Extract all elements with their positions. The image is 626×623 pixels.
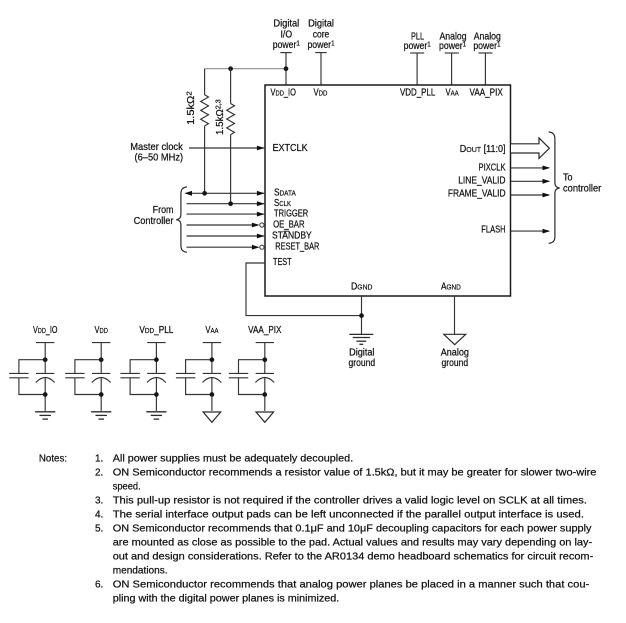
value label 1.5kOhm notes 2,3 (rotated) <box>215 99 226 135</box>
svg-text:ON Semiconductor recommends th: ON Semiconductor recommends that analog … <box>113 579 590 590</box>
capacitor 10uF polarized (VDD_PLL) <box>147 373 166 382</box>
svg-text:From: From <box>153 205 174 215</box>
junction DGND / TEST <box>359 313 364 318</box>
svg-text:core: core <box>313 29 330 40</box>
svg-text:speed.: speed. <box>113 481 141 492</box>
wire: VAA decoupling net <box>186 343 212 411</box>
power supply symbol VDD_IO (bar) <box>36 342 54 344</box>
power supply symbol VDD_IO (bar + stub to pin) <box>280 53 291 86</box>
svg-text:ON Semiconductor recommends th: ON Semiconductor recommends that 0.1μF a… <box>113 524 593 535</box>
junction VDD bottom <box>99 392 104 397</box>
note line <box>95 579 590 590</box>
capacitor 10uF polarized (VDD) <box>92 373 111 382</box>
note line <box>95 495 587 506</box>
power supply symbol VDD (bar + stub) <box>315 53 326 86</box>
svg-text:power1: power1 <box>473 40 500 51</box>
svg-text:TRIGGER: TRIGGER <box>274 207 308 218</box>
svg-text:VAA_PIX: VAA_PIX <box>470 87 503 98</box>
wire: DGND stub <box>361 296 363 334</box>
svg-text:out and design considerations.: out and design considerations. Refer to … <box>113 551 594 562</box>
power supply symbol VAA_PIX (bar) <box>256 342 274 344</box>
bus arrow DOUT to controller <box>511 138 549 158</box>
analog ground symbol (VAA_PIX) <box>256 412 274 422</box>
svg-text:1.: 1. <box>95 453 103 464</box>
svg-text:This pull-up resistor is not r: This pull-up resistor is not required if… <box>113 495 587 506</box>
power supply symbol VAA (bar + stub) <box>445 53 459 86</box>
capacitor 10uF polarized (VDD_IO) <box>36 373 55 382</box>
label: Master clock (6-50 MHz) <box>130 142 183 164</box>
sensor chip U1 (AR0134) body <box>265 85 511 296</box>
svg-text:I/O: I/O <box>281 29 293 40</box>
power rail: Analog power label (VAA_PIX) <box>473 31 501 51</box>
junction rail / R2 top <box>228 66 233 71</box>
junction VDD_PLL top <box>154 357 159 362</box>
svg-text:power1: power1 <box>273 40 300 51</box>
svg-text:power1: power1 <box>439 40 466 51</box>
wire: PIXCLK output <box>511 166 550 171</box>
note line <box>95 467 597 479</box>
note line <box>113 551 594 562</box>
svg-text:6.: 6. <box>95 579 103 590</box>
junction SCLK / R2 <box>228 201 233 206</box>
wire: pull-up rail to VDD_IO <box>205 68 286 70</box>
junction VDD top <box>99 357 104 362</box>
power supply symbol VDD_PLL (bar + stub) <box>410 53 424 86</box>
wire: TRIGGER <box>187 212 265 217</box>
svg-text:VAA_PIX: VAA_PIX <box>248 324 281 335</box>
svg-text:pling with the digital power p: pling with the digital power planes is m… <box>113 594 340 605</box>
power supply symbol VDD_PLL (bar) <box>147 342 165 344</box>
junction VDD_PLL bottom <box>154 392 159 397</box>
brace: From Controller group <box>176 187 187 252</box>
svg-text:Controller: Controller <box>134 216 174 227</box>
wire: STANDBY <box>187 234 265 239</box>
junction VAA_PIX top <box>262 357 267 362</box>
label: To controller <box>563 172 602 194</box>
power rail: Digital core power label <box>307 18 334 50</box>
svg-text:To: To <box>563 172 572 182</box>
brace: To controller group <box>549 132 560 244</box>
wire: VDD_IO decoupling net <box>19 343 45 411</box>
svg-text:STANDBY: STANDBY <box>272 230 312 241</box>
power supply symbol VAA (bar) <box>203 342 221 344</box>
resistor R1 1.5kOhm (note 2) <box>201 69 209 194</box>
junction VAA_PIX bottom <box>262 392 267 397</box>
svg-text:ground: ground <box>442 358 469 369</box>
svg-text:mendations.: mendations. <box>113 565 168 576</box>
svg-text:controller: controller <box>563 183 602 194</box>
label: Analog ground <box>441 347 469 368</box>
wire: VDD_PLL decoupling net <box>130 343 156 411</box>
svg-text:5.: 5. <box>95 523 103 534</box>
power supply symbol VDD (bar) <box>92 342 110 344</box>
svg-text:DGND: DGND <box>351 281 372 292</box>
junction VDD_IO bottom <box>43 392 48 397</box>
wire: LINE_VALID output <box>511 179 550 184</box>
wire: TEST tied to digital ground <box>246 263 362 316</box>
svg-text:ground: ground <box>349 358 376 369</box>
value label 1.5kOhm note2 (rotated) <box>185 91 197 125</box>
wire: OE_BAR (active low bubble) <box>187 223 265 228</box>
svg-text:All power supplies must be ade: All power supplies must be adequately de… <box>113 454 354 465</box>
svg-text:are mounted as close as possib: are mounted as close as possible to the … <box>113 538 593 548</box>
digital ground symbol (VDD_IO) <box>35 412 55 419</box>
wire: VAA_PIX decoupling net <box>239 343 265 411</box>
svg-text:1.5kΩ2: 1.5kΩ2 <box>185 91 197 125</box>
svg-text:VDD_PLL: VDD_PLL <box>400 87 435 98</box>
wire: EXTCLK input <box>189 146 265 151</box>
svg-text:PIXCLK: PIXCLK <box>479 161 506 172</box>
svg-text:Master clock: Master clock <box>130 142 183 153</box>
svg-text:VDD_IO: VDD_IO <box>271 87 297 98</box>
label: Digital ground <box>349 347 376 368</box>
capacitor 0.1uF (VAA_PIX) <box>229 373 248 377</box>
capacitor 0.1uF (VAA) <box>176 373 195 377</box>
analog ground symbol (VAA) <box>203 412 221 422</box>
svg-text:power1: power1 <box>404 40 431 51</box>
svg-text:The serial interface output pa: The serial interface output pads can be … <box>113 509 584 520</box>
power rail: PLL power label <box>404 30 431 51</box>
svg-text:RESET_BAR: RESET_BAR <box>275 240 319 251</box>
digital ground symbol (VDD_PLL) <box>146 412 166 419</box>
resistor R2 1.5kOhm (notes 2,3) <box>227 69 235 204</box>
svg-text:FRAME_VALID: FRAME_VALID <box>448 188 506 199</box>
wire: FLASH output <box>511 229 550 234</box>
junction VAA bottom <box>210 392 215 397</box>
note line <box>95 509 584 520</box>
capacitor 10uF polarized (VAA_PIX) <box>255 373 274 382</box>
wire: SCLK <box>187 201 265 206</box>
svg-text:3.: 3. <box>95 495 103 506</box>
pin label STANDBY <box>272 230 312 241</box>
wire: FRAME_VALID output <box>511 193 550 198</box>
svg-text:VDD_PLL: VDD_PLL <box>139 324 173 335</box>
junction VDD_IO top <box>43 357 48 362</box>
digital ground symbol (DGND) <box>349 334 373 344</box>
svg-text:DOUT [11:0]: DOUT [11:0] <box>460 143 506 154</box>
junction VAA top <box>210 357 215 362</box>
label: From Controller <box>134 205 174 227</box>
note line <box>113 594 340 605</box>
wire: RESET_BAR (active low bubble) <box>187 245 265 250</box>
capacitor 0.1uF (VDD) <box>65 373 84 377</box>
power rail: Analog power label (VAA) <box>439 31 467 51</box>
svg-text:4.: 4. <box>95 509 103 520</box>
wire: AGND stub <box>454 296 456 334</box>
analog ground symbol (AGND) <box>444 334 466 344</box>
note line <box>113 481 141 492</box>
svg-text:TEST: TEST <box>273 256 292 267</box>
capacitor 10uF polarized (VAA) <box>203 373 222 382</box>
svg-text:(6–50 MHz): (6–50 MHz) <box>135 152 184 163</box>
wire: VDD decoupling net <box>75 343 101 411</box>
svg-text:LINE_VALID: LINE_VALID <box>458 175 506 186</box>
svg-text:FLASH: FLASH <box>481 224 505 235</box>
junction on VDD_IO stub <box>284 66 289 71</box>
svg-text:EXTCLK: EXTCLK <box>273 142 309 153</box>
power supply symbol VAA_PIX (bar + stub) <box>479 53 493 86</box>
capacitor 0.1uF (VDD_PLL) <box>120 373 139 377</box>
svg-text:ON Semiconductor recommends a: ON Semiconductor recommends a resistor v… <box>113 467 597 478</box>
svg-text:OE_BAR: OE_BAR <box>273 218 305 229</box>
svg-text:power1: power1 <box>307 40 334 51</box>
note line <box>95 523 592 534</box>
power rail: Digital I/O power label <box>273 18 300 50</box>
note line <box>113 538 593 548</box>
junction SDATA / R1 <box>202 191 207 196</box>
svg-text:VDD_IO: VDD_IO <box>33 324 58 335</box>
note line <box>113 565 168 576</box>
svg-text:2.: 2. <box>95 467 103 478</box>
digital ground symbol (VDD) <box>91 412 111 419</box>
wire: SDATA (bidirectional) <box>184 191 264 196</box>
note line <box>95 453 353 464</box>
capacitor 0.1uF (VDD_IO) <box>9 373 28 377</box>
svg-text:Notes:: Notes: <box>39 453 67 464</box>
